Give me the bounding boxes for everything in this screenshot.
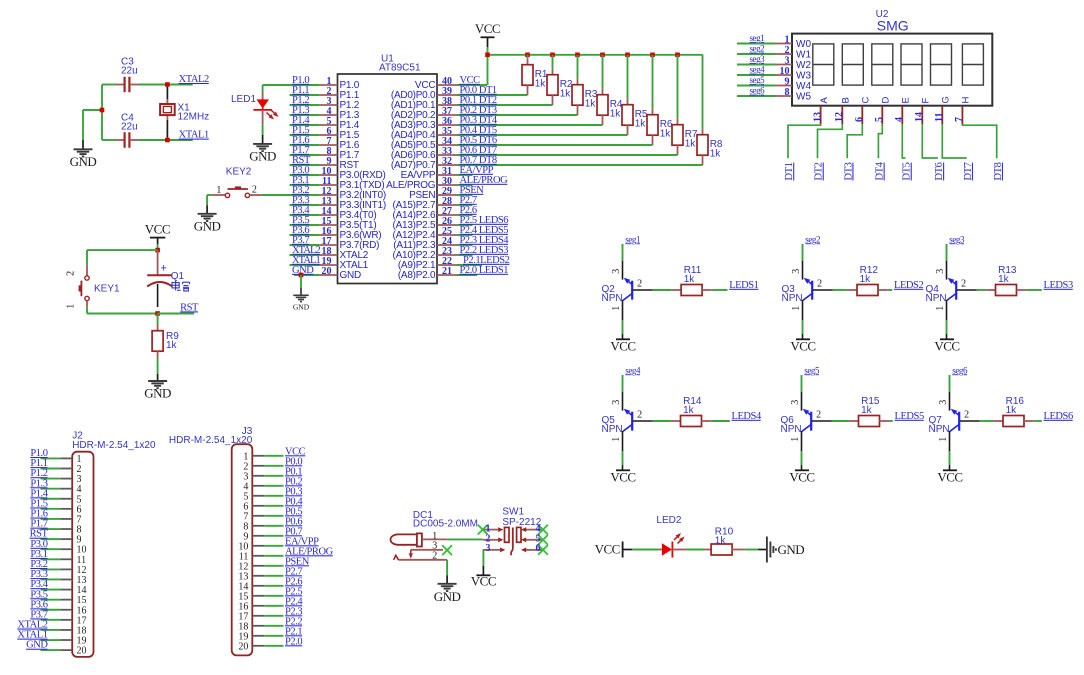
svg-text:VCC: VCC — [610, 470, 635, 485]
svg-text:LED1: LED1 — [231, 94, 256, 105]
svg-text:VCC: VCC — [595, 542, 620, 557]
svg-text:20: 20 — [77, 646, 87, 657]
svg-text:KEY2: KEY2 — [226, 167, 252, 178]
svg-text:1k: 1k — [660, 129, 672, 140]
svg-text:3: 3 — [785, 55, 790, 66]
svg-text:HDR-M-2.54_1x20: HDR-M-2.54_1x20 — [169, 435, 253, 446]
svg-text:1k: 1k — [610, 109, 622, 120]
svg-text:8: 8 — [785, 87, 790, 98]
svg-text:6: 6 — [854, 117, 865, 122]
svg-text:1k: 1k — [560, 89, 572, 100]
svg-text:1: 1 — [935, 306, 946, 311]
svg-text:1: 1 — [938, 437, 949, 442]
svg-text:NPN: NPN — [926, 293, 947, 304]
svg-text:seg2: seg2 — [805, 234, 820, 244]
svg-text:VCC: VCC — [789, 470, 814, 485]
svg-text:B: B — [841, 97, 852, 103]
svg-text:1k: 1k — [635, 119, 647, 130]
svg-text:3: 3 — [611, 269, 622, 274]
svg-text:VCC: VCC — [475, 21, 500, 36]
svg-text:1k: 1k — [710, 149, 722, 160]
svg-text:DT2: DT2 — [814, 162, 825, 180]
svg-text:seg6: seg6 — [750, 86, 766, 96]
svg-text:1: 1 — [785, 34, 790, 45]
svg-text:14: 14 — [914, 112, 925, 122]
svg-text:2: 2 — [961, 279, 966, 290]
svg-text:seg5: seg5 — [750, 75, 766, 85]
svg-text:22u: 22u — [121, 65, 138, 76]
svg-text:GND: GND — [340, 270, 362, 281]
svg-text:20: 20 — [238, 641, 248, 652]
svg-text:NPN: NPN — [602, 293, 623, 304]
svg-text:XTAL2: XTAL2 — [179, 74, 209, 85]
svg-text:1k: 1k — [1006, 405, 1018, 416]
svg-text:HDR-M-2.54_1x20: HDR-M-2.54_1x20 — [72, 440, 156, 451]
svg-text:NPN: NPN — [602, 424, 623, 435]
svg-text:GND: GND — [249, 148, 276, 163]
svg-text:LEDS6: LEDS6 — [1044, 411, 1073, 422]
svg-text:1k: 1k — [861, 405, 873, 416]
svg-text:6: 6 — [536, 543, 541, 554]
svg-text:1: 1 — [791, 306, 802, 311]
svg-text:VCC: VCC — [790, 339, 815, 354]
svg-text:11: 11 — [934, 113, 945, 122]
svg-text:SMG: SMG — [877, 18, 909, 34]
svg-text:DT8: DT8 — [993, 162, 1004, 180]
svg-text:C: C — [861, 97, 872, 104]
svg-text:GND: GND — [144, 386, 171, 401]
svg-text:seg1: seg1 — [750, 33, 765, 43]
svg-text:W4: W4 — [796, 81, 811, 92]
svg-text:DC005-2.0MM: DC005-2.0MM — [413, 519, 478, 530]
svg-text:VCC: VCC — [145, 221, 170, 236]
svg-text:LEDS2: LEDS2 — [894, 280, 923, 291]
svg-text:GND: GND — [778, 542, 805, 557]
svg-text:1k: 1k — [685, 139, 697, 150]
svg-text:3: 3 — [486, 543, 491, 554]
svg-text:GND: GND — [434, 589, 461, 604]
svg-text:SW1: SW1 — [502, 507, 524, 518]
svg-text:1k: 1k — [715, 536, 727, 547]
svg-text:W1: W1 — [796, 49, 811, 60]
svg-text:4: 4 — [894, 117, 905, 122]
svg-text:2: 2 — [964, 410, 969, 421]
svg-text:P2.0: P2.0 — [285, 636, 302, 647]
svg-text:13: 13 — [812, 112, 823, 122]
svg-text:1k: 1k — [860, 274, 872, 285]
svg-text:DT3: DT3 — [843, 162, 854, 180]
svg-text:1: 1 — [611, 437, 622, 442]
svg-text:Q1: Q1 — [171, 271, 185, 282]
svg-text:P2.0 LEDS1: P2.0 LEDS1 — [460, 265, 509, 276]
svg-text:NPN: NPN — [781, 424, 802, 435]
svg-text:GND: GND — [194, 218, 221, 233]
svg-text:LEDS4: LEDS4 — [732, 411, 762, 422]
svg-text:1k: 1k — [684, 274, 696, 285]
svg-text:22u: 22u — [121, 122, 138, 133]
svg-text:2: 2 — [637, 410, 642, 421]
svg-text:H: H — [961, 97, 972, 104]
svg-text:2: 2 — [817, 279, 822, 290]
svg-text:W0: W0 — [796, 39, 811, 50]
svg-text:1k: 1k — [683, 405, 695, 416]
svg-text:NPN: NPN — [929, 424, 950, 435]
svg-text:5: 5 — [874, 117, 885, 122]
svg-text:RST: RST — [180, 302, 199, 313]
svg-text:W5: W5 — [796, 91, 811, 102]
svg-text:3: 3 — [938, 400, 949, 405]
svg-text:A: A — [819, 97, 830, 104]
svg-text:seg6: seg6 — [952, 365, 968, 375]
svg-text:VCC: VCC — [471, 573, 496, 588]
svg-text:LED2: LED2 — [656, 515, 681, 526]
svg-text:seg1: seg1 — [625, 234, 640, 244]
svg-text:seg4: seg4 — [625, 365, 641, 375]
svg-text:GND: GND — [26, 640, 48, 651]
svg-text:seg3: seg3 — [750, 54, 766, 64]
svg-text:1: 1 — [611, 306, 622, 311]
svg-text:12: 12 — [834, 112, 845, 122]
svg-text:1k: 1k — [585, 99, 597, 110]
svg-text:seg4: seg4 — [750, 65, 766, 75]
svg-text:12MHz: 12MHz — [178, 111, 210, 122]
svg-text:XTAL1: XTAL1 — [179, 130, 209, 141]
svg-text:DT5: DT5 — [902, 162, 913, 180]
svg-text:W3: W3 — [796, 70, 811, 81]
svg-text:2: 2 — [637, 279, 642, 290]
svg-text:W2: W2 — [796, 60, 811, 71]
svg-text:2: 2 — [816, 410, 821, 421]
svg-text:1: 1 — [66, 304, 77, 309]
svg-text:NPN: NPN — [782, 293, 803, 304]
svg-text:21: 21 — [442, 266, 452, 277]
svg-text:2: 2 — [252, 184, 257, 195]
svg-text:1: 1 — [790, 437, 801, 442]
svg-text:AT89C51: AT89C51 — [379, 62, 421, 73]
svg-text:7: 7 — [954, 117, 965, 122]
svg-text:DT6: DT6 — [934, 162, 945, 180]
svg-text:9: 9 — [785, 76, 790, 87]
svg-text:seg5: seg5 — [804, 365, 820, 375]
svg-text:(A8)P2.0: (A8)P2.0 — [398, 270, 436, 281]
svg-text:D: D — [881, 97, 892, 104]
svg-text:3: 3 — [611, 400, 622, 405]
svg-text:LEDS1: LEDS1 — [729, 280, 758, 291]
svg-text:2: 2 — [432, 551, 437, 562]
svg-text:VCC: VCC — [937, 470, 962, 485]
svg-text:3: 3 — [791, 269, 802, 274]
svg-text:DT4: DT4 — [875, 161, 886, 180]
svg-text:+: + — [161, 263, 167, 275]
svg-text:LEDS5: LEDS5 — [895, 411, 924, 422]
svg-text:LEDS3: LEDS3 — [1044, 280, 1073, 291]
svg-text:VCC: VCC — [934, 339, 959, 354]
svg-text:1k: 1k — [535, 79, 547, 90]
svg-text:1k: 1k — [166, 340, 178, 351]
svg-text:seg2: seg2 — [750, 44, 765, 54]
svg-text:G: G — [941, 96, 952, 103]
svg-text:GND: GND — [70, 154, 97, 169]
svg-text:KEY1: KEY1 — [94, 284, 120, 295]
svg-text:2: 2 — [785, 45, 790, 56]
svg-text:1: 1 — [216, 185, 221, 196]
svg-text:DT7: DT7 — [963, 162, 974, 180]
svg-text:20: 20 — [322, 266, 332, 277]
svg-text:seg3: seg3 — [949, 234, 965, 244]
svg-text:DT1: DT1 — [784, 162, 795, 180]
svg-text:F: F — [921, 98, 932, 104]
svg-text:1k: 1k — [998, 274, 1010, 285]
svg-text:GND: GND — [293, 303, 310, 312]
svg-text:2: 2 — [66, 271, 77, 276]
svg-text:VCC: VCC — [610, 339, 635, 354]
svg-text:3: 3 — [790, 400, 801, 405]
svg-text:10: 10 — [780, 66, 790, 77]
svg-text:3: 3 — [935, 269, 946, 274]
svg-text:E: E — [901, 97, 912, 103]
